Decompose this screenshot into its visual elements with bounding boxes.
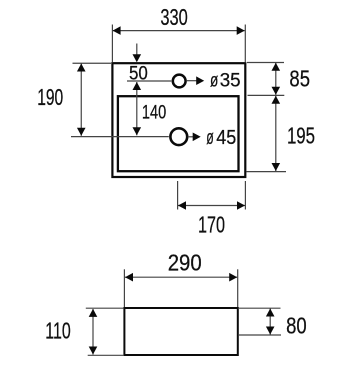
dim 80 top extension line <box>239 307 281 309</box>
svg-text:80: 80 <box>286 312 307 338</box>
drain hole centre line <box>71 136 169 138</box>
hole ø35 centre line <box>127 80 171 82</box>
dim 110 arrow down <box>89 347 98 355</box>
dim 170 extension line left <box>177 181 179 210</box>
mid extension line (inner rim top) <box>248 94 285 96</box>
dim 330 extension line right <box>244 25 246 63</box>
dim 190 top extension line <box>73 62 112 64</box>
dim 80 line <box>269 309 271 335</box>
svg-text:110: 110 <box>45 317 70 343</box>
dim 195 arrow up <box>272 96 281 104</box>
dim 140 arrow down <box>133 127 142 135</box>
outer basin rectangle (top view) <box>112 63 245 177</box>
dim 290 arrow left <box>125 273 133 282</box>
bottom extension line (inner rim bottom) <box>247 171 287 173</box>
dim 290 extension line left <box>123 269 125 307</box>
svg-text:ø: ø <box>210 70 219 91</box>
dim 195 line <box>275 96 277 171</box>
svg-text:170: 170 <box>198 212 225 238</box>
svg-text:85: 85 <box>289 66 310 92</box>
dim 290 arrow right <box>229 273 237 282</box>
svg-text:50: 50 <box>129 64 148 85</box>
tap hole circle ø35 <box>173 75 186 88</box>
svg-text:ø: ø <box>206 126 214 149</box>
drain hole circle ø45 <box>170 128 187 145</box>
dim 85 top extension line <box>247 62 284 64</box>
dim 195 arrow down <box>272 163 281 171</box>
dim 290 extension line right <box>237 269 239 307</box>
dim 140 line (between hole centres) <box>136 82 138 135</box>
svg-text:290: 290 <box>168 250 202 276</box>
svg-text:190: 190 <box>37 84 63 110</box>
dim 85 arrow down <box>272 87 281 95</box>
svg-text:330: 330 <box>160 4 187 30</box>
dim 170 line <box>178 205 245 207</box>
dim 170 extension line right <box>244 181 246 210</box>
dim 110 line <box>92 309 94 355</box>
dim 190 arrow up <box>77 64 86 72</box>
dim 85 line <box>275 63 277 95</box>
dim 330 arrow left <box>113 26 121 35</box>
dim 290 line <box>125 276 237 278</box>
inner basin rectangle (top view) <box>118 96 239 171</box>
dim 170 arrow left <box>178 201 186 210</box>
dim 80 right extension line <box>239 334 281 336</box>
svg-text:35: 35 <box>220 70 241 91</box>
dim 330 line <box>113 30 245 32</box>
svg-text:195: 195 <box>287 122 315 148</box>
svg-text:140: 140 <box>142 102 166 123</box>
dim 190 arrow down <box>77 128 86 136</box>
dim 80 arrow down <box>266 327 275 335</box>
dim 330 extension line left <box>111 25 113 63</box>
dim 50 upper arrow (points down to rim top) <box>136 44 138 56</box>
dim 110 top extension line <box>86 307 124 309</box>
ø35 pointer arrow <box>187 80 197 82</box>
svg-text:45: 45 <box>216 126 236 149</box>
dim 330 arrow right <box>237 26 245 35</box>
side view rectangle <box>124 308 237 355</box>
ø45 pointer arrow <box>188 136 194 138</box>
dim 80 arrow up <box>266 309 275 317</box>
dim 140 arrow up <box>133 82 142 90</box>
dim 110 arrow up <box>89 309 98 317</box>
dim 170 arrow right <box>237 201 245 210</box>
dim 190 line <box>80 64 82 136</box>
dim 85 arrow up <box>272 63 281 71</box>
dim 110 bottom extension line <box>88 354 124 356</box>
